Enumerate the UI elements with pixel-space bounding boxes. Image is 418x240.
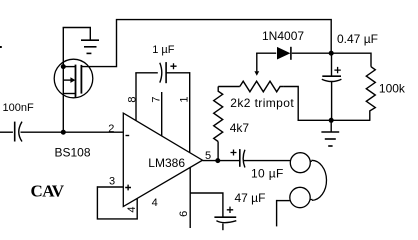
svg-text:5: 5 [205, 150, 211, 162]
svg-text:10 µF: 10 µF [251, 167, 284, 181]
svg-text:4: 4 [126, 207, 138, 213]
svg-text:8: 8 [126, 97, 138, 103]
svg-text:BS108: BS108 [55, 145, 91, 159]
svg-text:1 µF: 1 µF [152, 44, 175, 56]
svg-text:6: 6 [178, 211, 190, 217]
svg-text:7: 7 [151, 97, 163, 103]
svg-text:0.47 µF: 0.47 µF [337, 32, 378, 46]
svg-text:47 µF: 47 µF [235, 191, 266, 205]
svg-text:1: 1 [178, 97, 190, 103]
svg-text:3: 3 [109, 176, 115, 188]
svg-text:CAV: CAV [31, 181, 65, 200]
svg-text:4: 4 [152, 197, 158, 209]
svg-text:100nF: 100nF [3, 102, 34, 114]
svg-text:2: 2 [108, 123, 114, 135]
svg-text:100k: 100k [379, 81, 406, 95]
svg-text:4k7: 4k7 [230, 121, 250, 135]
svg-text:LM386: LM386 [148, 156, 185, 170]
svg-text:1N4007: 1N4007 [262, 29, 304, 43]
svg-text:2k2 trimpot: 2k2 trimpot [230, 96, 294, 110]
